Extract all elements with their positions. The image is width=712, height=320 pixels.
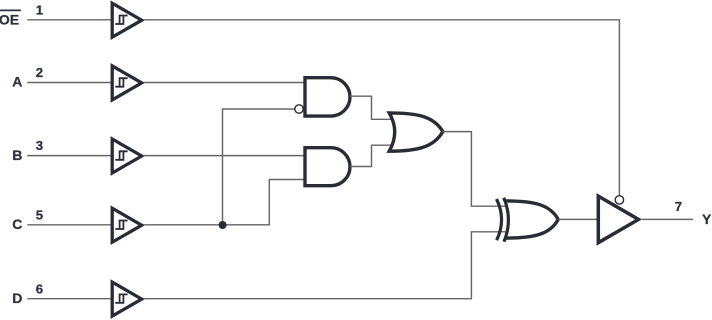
wire C input [27, 224, 111, 226]
wire Y output [642, 218, 693, 220]
wire OE input [27, 19, 111, 21]
XOR gate body left arc [504, 198, 509, 242]
wire A input [27, 82, 111, 84]
schmitt-trigger buffer (A input) [112, 66, 142, 100]
wire OE buffer output to tri-state enable bubble [144, 20, 620, 196]
svg-text:A: A [12, 74, 22, 90]
wire B input [27, 155, 111, 157]
XOR gate body outline [505, 201, 558, 238]
svg-text:6: 6 [36, 281, 43, 296]
wire D input [27, 298, 111, 300]
schmitt-trigger buffer (C input) [112, 208, 142, 242]
wire XOR output to output buffer [558, 218, 597, 220]
schmitt-trigger buffer (D input) [112, 282, 142, 316]
svg-text:1: 1 [36, 2, 43, 17]
wire AND1 output to OR top input [350, 96, 393, 119]
wire C branch to AND1 inverted input [223, 109, 295, 225]
net label OE (active low, overline) [0, 10, 21, 27]
inverting bubble on AND lower input [295, 105, 303, 113]
schmitt-trigger buffer (B input) [112, 139, 142, 173]
AND gate (B, C) [305, 148, 350, 186]
wire C buffer output to AND2 bottom input [144, 180, 305, 225]
svg-text:Y: Y [702, 211, 712, 227]
wire B buffer output to AND2 top input [144, 155, 305, 157]
XOR gate body fill [505, 201, 558, 238]
OR gate [389, 113, 443, 151]
svg-text:B: B [12, 147, 22, 163]
svg-text:C: C [12, 216, 22, 232]
svg-text:7: 7 [675, 199, 682, 214]
XOR gate leading input arc [497, 199, 502, 240]
svg-text:OE: OE [0, 12, 19, 28]
wire OR output to XOR top input [443, 132, 506, 207]
junction dot on C net [219, 221, 227, 229]
AND gate (A, not-C) [305, 78, 350, 116]
svg-text:2: 2 [36, 65, 43, 80]
svg-text:5: 5 [36, 207, 43, 222]
wire A buffer output to AND1 top input [144, 82, 305, 84]
wire D buffer output to XOR bottom input [144, 232, 506, 299]
svg-text:D: D [12, 290, 22, 306]
active-low enable bubble on tri-state buffer [615, 196, 623, 204]
schmitt-trigger buffer (OE input) [112, 3, 142, 37]
svg-text:3: 3 [36, 138, 43, 153]
wire AND2 output to OR bottom input [350, 145, 393, 166]
tri-state output buffer [598, 196, 638, 243]
